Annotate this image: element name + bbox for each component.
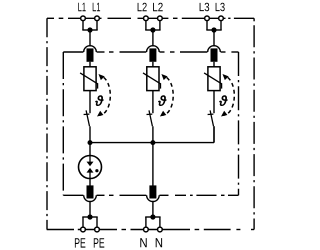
junction node L3 <box>211 27 216 32</box>
wire L3 junction to plug contact <box>213 30 215 47</box>
thermal disconnector switch L2 <box>147 110 153 126</box>
terminal L1 (left) <box>81 16 86 21</box>
spark gap electrodes <box>87 156 99 179</box>
terminal PE (left) <box>81 227 86 232</box>
temperature action arc L2 (dashed, double arrow) <box>160 74 173 117</box>
plug-in contact pin L3 <box>211 48 218 61</box>
plug-in contact socket L2 (dome) <box>147 46 160 52</box>
plug-in contact pin PE <box>87 185 94 198</box>
terminal L3 (right) <box>219 16 224 21</box>
outer enclosure boundary left (dash-dot) <box>46 18 48 229</box>
plug-in contact socket PE (dome) <box>84 195 97 201</box>
junction node L2 <box>150 27 155 32</box>
label theta L1 <box>95 95 104 106</box>
terminal L2 (left) <box>144 16 149 21</box>
wire L1 junction to plug contact <box>89 30 91 47</box>
wire spark gap to PE plug contact <box>89 178 91 185</box>
wire L3 terminal bracket <box>206 21 221 30</box>
varistor RV3 <box>204 67 222 91</box>
inner module boundary bottom (dash-dot) <box>63 194 238 196</box>
wire L2 varistor to disconnector <box>152 91 154 114</box>
wire L2 terminal bracket <box>145 21 160 30</box>
thermal disconnector switch L3 <box>208 110 214 126</box>
wire PE terminal bracket <box>82 217 97 227</box>
wire L2 junction to plug contact <box>152 30 154 47</box>
varistor RV1 <box>80 67 98 91</box>
label L3 L3 <box>200 3 225 12</box>
outer enclosure boundary bottom (dash-dot) <box>47 229 254 231</box>
terminal N (left) <box>144 227 149 232</box>
label PE PE <box>75 238 104 247</box>
spark gap F1 (circle) <box>79 156 102 179</box>
inner module boundary left (dash-dot) <box>62 52 64 195</box>
wire L2 pin to varistor <box>152 62 154 67</box>
plug-in contact socket L1 (dome) <box>84 46 97 52</box>
wire L1 terminal bracket <box>82 21 97 30</box>
wire L3 pin to varistor <box>213 62 215 67</box>
wire L2 disconnector to bus <box>152 126 154 142</box>
wire N terminal bracket <box>145 217 160 227</box>
wire N dome to terminal bracket <box>152 201 154 217</box>
inner module boundary right (dash-dot) <box>238 52 240 195</box>
junction node N <box>150 214 155 219</box>
junction node bus/L1 path <box>88 140 93 145</box>
junction node PE <box>87 214 92 219</box>
label theta L2 <box>158 95 167 106</box>
wire bus to spark gap <box>89 143 91 156</box>
wire L3 varistor to disconnector <box>213 91 215 114</box>
plug-in contact pin L2 <box>149 48 156 61</box>
terminal PE (right) <box>95 227 100 232</box>
wire PE dome to terminal bracket <box>89 201 91 217</box>
varistor RV2 <box>143 67 161 91</box>
plug-in contact pin L1 <box>87 48 94 61</box>
label L2 L2 <box>138 3 163 12</box>
temperature action arc L3 (dashed, double arrow) <box>221 74 234 117</box>
wire L1 varistor to disconnector <box>89 91 91 114</box>
label L1 L1 <box>78 3 100 12</box>
wire L1 pin to varistor <box>89 62 91 67</box>
thermal disconnector switch L1 <box>84 110 90 126</box>
terminal L3 (left) <box>205 16 210 21</box>
terminal L1 (right) <box>95 16 100 21</box>
wire L3 disconnector to bus <box>213 126 215 142</box>
wire bus to N plug contact <box>152 143 154 186</box>
temperature action arc L1 (dashed, double arrow) <box>97 74 110 117</box>
plug-in contact socket L3 (dome) <box>208 46 221 52</box>
outer enclosure boundary right (dash-dot) <box>253 18 255 229</box>
inner module boundary top (dash-dot) <box>63 51 238 53</box>
wire common bus (varistor outputs to N and spark gap) <box>90 126 214 142</box>
terminal N (right) <box>158 227 163 232</box>
wire L1 disconnector to bus <box>89 126 91 142</box>
plug-in contact pin N <box>149 185 156 198</box>
junction node L1 <box>87 27 92 32</box>
junction node bus/N path <box>150 140 155 145</box>
plug-in contact socket N (dome) <box>147 195 160 201</box>
label N N <box>140 238 162 247</box>
terminal L2 (right) <box>158 16 163 21</box>
outer enclosure boundary top (dash-dot) <box>47 17 254 19</box>
label theta L3 <box>219 95 228 106</box>
